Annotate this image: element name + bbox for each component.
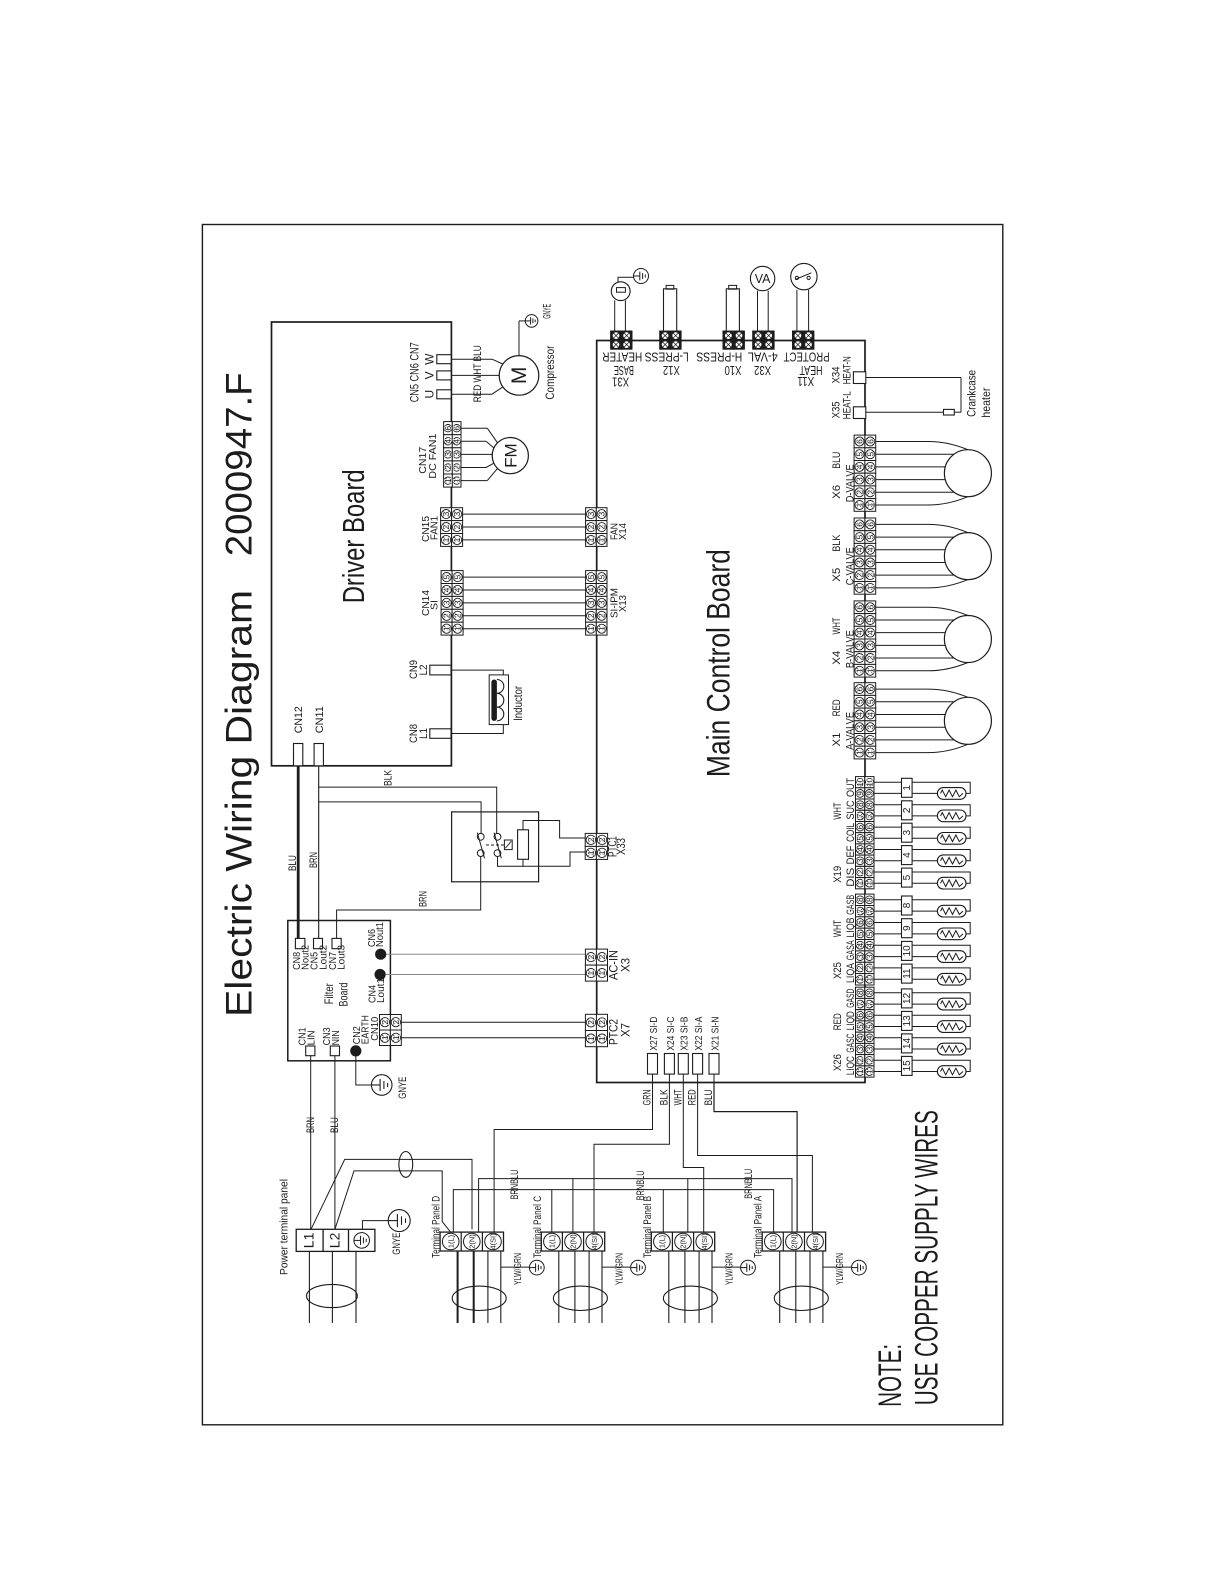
svg-text:8: 8 (865, 897, 874, 902)
svg-text:10: 10 (865, 777, 874, 786)
svg-text:Inductor: Inductor (511, 686, 525, 721)
svg-text:3: 3 (586, 600, 596, 605)
svg-text:2: 2 (586, 613, 596, 618)
svg-text:1: 1 (865, 977, 874, 982)
svg-text:5: 5 (855, 452, 865, 457)
svg-text:X11: X11 (797, 374, 814, 389)
svg-text:5: 5 (865, 931, 874, 936)
svg-text:2: 2 (597, 1020, 607, 1025)
svg-text:1: 1 (865, 750, 875, 755)
svg-text:4: 4 (453, 587, 463, 592)
svg-text:X32: X32 (754, 363, 771, 378)
svg-text:4: 4 (902, 852, 913, 858)
svg-text:1: 1 (586, 1036, 596, 1041)
svg-text:12: 12 (902, 992, 913, 1004)
svg-text:8: 8 (856, 897, 865, 902)
svg-text:D-VALVE: D-VALVE (845, 464, 857, 502)
svg-text:YLW/GRN: YLW/GRN (834, 1253, 846, 1285)
svg-text:1: 1 (586, 537, 596, 542)
svg-text:5: 5 (865, 699, 875, 704)
svg-text:HEAT-L: HEAT-L (841, 391, 853, 419)
svg-text:6: 6 (865, 920, 874, 925)
svg-text:1: 1 (442, 626, 452, 631)
svg-text:1: 1 (856, 1069, 865, 1074)
svg-text:Lout3: Lout3 (335, 945, 347, 970)
svg-text:8: 8 (865, 802, 874, 807)
svg-text:W: W (422, 353, 436, 365)
svg-text:2: 2 (597, 524, 607, 529)
svg-text:3: 3 (452, 452, 462, 457)
svg-text:L1: L1 (301, 1232, 317, 1248)
svg-text:GASC: GASC (845, 1034, 857, 1053)
svg-text:BLU: BLU (287, 855, 299, 871)
svg-text:4(SI): 4(SI) (700, 1233, 709, 1250)
svg-text:6: 6 (855, 522, 865, 527)
svg-text:PROTECT: PROTECT (784, 349, 830, 364)
svg-text:8: 8 (902, 902, 913, 908)
svg-text:6: 6 (855, 686, 865, 691)
svg-text:RED: RED (832, 1013, 844, 1030)
svg-text:2(N): 2(N) (468, 1234, 477, 1249)
svg-text:GASB: GASB (845, 895, 857, 915)
svg-text:5: 5 (855, 534, 865, 539)
svg-text:C-VALVE: C-VALVE (845, 547, 857, 585)
svg-text:4(SI): 4(SI) (590, 1233, 599, 1250)
svg-text:2: 2 (856, 869, 865, 874)
svg-text:3: 3 (865, 560, 875, 565)
svg-text:15: 15 (902, 1060, 913, 1072)
svg-text:2: 2 (441, 524, 451, 529)
svg-text:4: 4 (856, 847, 865, 852)
svg-text:5: 5 (856, 836, 865, 841)
svg-text:VA: VA (755, 272, 771, 286)
svg-text:6: 6 (856, 1013, 865, 1018)
svg-text:Lout1: Lout1 (375, 978, 387, 1003)
svg-text:SUC: SUC (845, 800, 857, 819)
svg-text:2: 2 (865, 869, 874, 874)
svg-text:H-PRESS: H-PRESS (696, 349, 742, 364)
svg-text:8: 8 (856, 802, 865, 807)
svg-text:X22 SI-A: X22 SI-A (693, 1017, 705, 1051)
svg-text:2: 2 (391, 1020, 401, 1025)
svg-text:X1: X1 (831, 733, 843, 747)
svg-text:1: 1 (586, 970, 596, 975)
svg-text:X25: X25 (832, 962, 844, 979)
svg-text:1: 1 (597, 850, 607, 855)
svg-text:Electric Wiring Diagram: Electric Wiring Diagram (219, 590, 260, 1017)
svg-text:X12: X12 (663, 363, 680, 378)
svg-text:7: 7 (856, 813, 865, 818)
svg-text:5: 5 (856, 1024, 865, 1029)
svg-text:1: 1 (865, 668, 875, 673)
svg-text:Terminal Panel A: Terminal Panel A (753, 1195, 765, 1257)
svg-text:5: 5 (865, 534, 875, 539)
svg-text:3: 3 (856, 954, 865, 959)
svg-text:YLW/GRN: YLW/GRN (723, 1253, 735, 1285)
svg-text:2(N): 2(N) (569, 1234, 578, 1249)
svg-text:BLK: BLK (831, 534, 843, 552)
svg-text:2: 2 (865, 965, 874, 970)
svg-text:CN12: CN12 (293, 706, 305, 733)
svg-text:1: 1 (452, 537, 462, 542)
svg-text:WHT: WHT (831, 617, 843, 634)
svg-text:Nout1: Nout1 (374, 922, 386, 947)
svg-text:1: 1 (597, 626, 607, 631)
svg-text:A-VALVE: A-VALVE (845, 712, 857, 750)
svg-text:1: 1 (865, 585, 875, 590)
svg-text:2: 2 (586, 954, 596, 959)
svg-text:6: 6 (865, 522, 875, 527)
svg-text:8: 8 (856, 990, 865, 995)
svg-text:2: 2 (856, 965, 865, 970)
svg-text:WHT: WHT (832, 802, 844, 819)
svg-text:WHT: WHT (672, 1089, 684, 1105)
svg-text:2: 2 (380, 1020, 390, 1025)
svg-text:4(SI): 4(SI) (811, 1233, 820, 1250)
svg-text:4: 4 (865, 712, 875, 717)
svg-text:GNYE: GNYE (391, 1233, 403, 1255)
svg-text:4: 4 (865, 847, 874, 852)
svg-text:2: 2 (865, 490, 875, 495)
svg-text:OUT: OUT (845, 778, 857, 797)
svg-text:YLW/GRN: YLW/GRN (512, 1253, 524, 1285)
svg-text:5: 5 (855, 617, 865, 622)
svg-text:X33: X33 (616, 838, 628, 855)
svg-text:2: 2 (597, 837, 607, 842)
svg-text:3: 3 (453, 600, 463, 605)
svg-text:9: 9 (856, 791, 865, 796)
svg-text:4: 4 (856, 942, 865, 947)
svg-text:Filter: Filter (322, 983, 336, 1004)
svg-text:X23 SI-B: X23 SI-B (679, 1017, 691, 1051)
svg-text:1: 1 (586, 626, 596, 631)
svg-text:6: 6 (865, 686, 875, 691)
svg-text:6: 6 (865, 605, 875, 610)
svg-text:GASD: GASD (845, 989, 857, 1008)
svg-text:GRN: GRN (642, 1089, 654, 1105)
svg-text:5: 5 (902, 874, 913, 880)
svg-text:X5: X5 (831, 568, 843, 582)
svg-text:BLK: BLK (383, 769, 395, 786)
svg-text:FAN1: FAN1 (429, 516, 441, 540)
svg-text:4: 4 (865, 630, 875, 635)
svg-text:DIS: DIS (845, 868, 857, 887)
svg-text:X14: X14 (617, 523, 629, 540)
svg-text:X7: X7 (621, 1023, 633, 1037)
svg-text:11: 11 (902, 968, 913, 979)
svg-text:LIN: LIN (305, 1030, 317, 1045)
svg-text:3: 3 (865, 477, 875, 482)
svg-text:X6: X6 (831, 485, 843, 499)
svg-text:4: 4 (865, 1035, 874, 1040)
svg-text:1: 1 (391, 1035, 401, 1040)
svg-text:5: 5 (865, 836, 874, 841)
svg-text:Power terminal panel: Power terminal panel (278, 1179, 290, 1275)
svg-text:X24 SI-C: X24 SI-C (665, 1016, 677, 1050)
svg-text:X3: X3 (621, 958, 633, 972)
svg-text:6: 6 (856, 920, 865, 925)
svg-text:X26: X26 (832, 1054, 844, 1071)
svg-text:LIQA: LIQA (845, 962, 857, 983)
svg-text:X13: X13 (617, 595, 629, 612)
svg-text:1: 1 (597, 537, 607, 542)
svg-text:5: 5 (453, 574, 463, 579)
svg-text:EARTH: EARTH (360, 1015, 372, 1044)
svg-text:2: 2 (452, 465, 462, 470)
svg-text:BLU: BLU (329, 1117, 341, 1133)
svg-text:LIQD: LIQD (845, 1011, 857, 1030)
svg-text:5: 5 (865, 1024, 874, 1029)
svg-text:9: 9 (865, 791, 874, 796)
svg-text:CN11: CN11 (314, 706, 326, 733)
svg-text:4(SI): 4(SI) (489, 1233, 498, 1250)
svg-text:2: 2 (452, 524, 462, 529)
svg-text:3: 3 (856, 858, 865, 863)
svg-text:2: 2 (865, 572, 875, 577)
svg-text:BLK: BLK (658, 1089, 670, 1106)
svg-text:5: 5 (865, 452, 875, 457)
svg-text:RED: RED (831, 699, 843, 716)
svg-text:LIQB: LIQB (845, 918, 857, 938)
svg-text:RED WHT BLU: RED WHT BLU (472, 345, 484, 402)
svg-text:1(L): 1(L) (769, 1234, 778, 1248)
svg-text:4: 4 (442, 587, 452, 592)
svg-text:Terminal Panel D: Terminal Panel D (431, 1196, 443, 1258)
svg-text:8: 8 (865, 990, 874, 995)
svg-text:1: 1 (380, 1035, 390, 1040)
svg-text:2: 2 (586, 1020, 596, 1025)
svg-text:GNYE: GNYE (397, 1077, 409, 1099)
svg-text:M: M (508, 367, 531, 385)
svg-text:X27 SI-D: X27 SI-D (648, 1016, 660, 1050)
svg-text:4: 4 (856, 1035, 865, 1040)
svg-text:6: 6 (856, 824, 865, 829)
svg-text:1: 1 (856, 880, 865, 885)
svg-text:4: 4 (865, 547, 875, 552)
svg-text:7: 7 (865, 1001, 874, 1006)
svg-text:Driver Board: Driver Board (336, 469, 371, 603)
svg-text:2000947.F: 2000947.F (219, 372, 260, 556)
svg-text:Compressor: Compressor (543, 346, 557, 400)
svg-text:2: 2 (453, 613, 463, 618)
svg-text:7: 7 (856, 908, 865, 913)
svg-text:Crankcase: Crankcase (964, 370, 978, 417)
svg-text:1: 1 (453, 626, 463, 631)
svg-text:YLW/GRN: YLW/GRN (613, 1253, 625, 1285)
svg-text:BRN: BRN (305, 1117, 317, 1133)
svg-text:DC FAN1: DC FAN1 (427, 433, 439, 478)
svg-text:1: 1 (441, 537, 451, 542)
svg-text:1(L): 1(L) (446, 1234, 455, 1248)
svg-text:6: 6 (865, 824, 874, 829)
svg-text:1: 1 (856, 977, 865, 982)
svg-text:6: 6 (855, 605, 865, 610)
svg-text:2: 2 (865, 1058, 874, 1063)
svg-text:4: 4 (452, 439, 462, 444)
svg-text:NIN: NIN (330, 1030, 342, 1045)
svg-text:1: 1 (452, 478, 462, 483)
svg-text:5: 5 (442, 574, 452, 579)
svg-text:3: 3 (865, 643, 875, 648)
svg-text:GNYE: GNYE (542, 304, 554, 319)
svg-text:2: 2 (597, 613, 607, 618)
svg-text:5: 5 (855, 699, 865, 704)
svg-text:GASA: GASA (845, 940, 857, 960)
svg-text:L2: L2 (418, 665, 430, 676)
svg-text:3: 3 (902, 829, 913, 835)
svg-text:WHT: WHT (832, 920, 844, 937)
svg-text:AC-IN: AC-IN (609, 950, 621, 980)
svg-text:BLU: BLU (703, 1089, 715, 1105)
svg-text:U: U (422, 390, 436, 399)
svg-text:2: 2 (856, 1058, 865, 1063)
svg-text:5: 5 (865, 617, 875, 622)
svg-text:X21 SI-N: X21 SI-N (709, 1017, 721, 1051)
svg-text:LIQC: LIQC (845, 1056, 857, 1075)
svg-text:RED: RED (687, 1089, 699, 1105)
svg-text:6: 6 (855, 439, 865, 444)
svg-text:BRNBLU: BRNBLU (509, 1169, 521, 1199)
svg-text:2: 2 (902, 807, 913, 813)
svg-text:3: 3 (586, 511, 596, 516)
svg-text:1: 1 (865, 880, 874, 885)
svg-text:2: 2 (586, 837, 596, 842)
svg-text:BRN: BRN (418, 891, 430, 907)
svg-text:Board: Board (337, 983, 351, 1007)
svg-text:14: 14 (902, 1037, 913, 1049)
svg-text:L1: L1 (418, 728, 430, 739)
svg-text:6: 6 (865, 439, 875, 444)
svg-text:4-VAL: 4-VAL (748, 349, 778, 364)
svg-text:2: 2 (586, 524, 596, 529)
svg-text:V: V (422, 371, 436, 379)
svg-text:3: 3 (865, 954, 874, 959)
svg-text:DEF: DEF (845, 845, 857, 864)
svg-text:FM: FM (502, 443, 521, 468)
svg-text:4: 4 (597, 587, 607, 592)
svg-text:3: 3 (452, 511, 462, 516)
svg-text:3: 3 (856, 1046, 865, 1051)
svg-text:HEATER: HEATER (602, 350, 642, 365)
svg-text:3: 3 (597, 600, 607, 605)
svg-text:NOTE:: NOTE: (872, 1344, 908, 1407)
svg-text:heater: heater (979, 388, 993, 418)
svg-text:PTC2: PTC2 (609, 1019, 621, 1045)
svg-text:3: 3 (442, 600, 452, 605)
svg-text:1: 1 (902, 785, 913, 791)
svg-text:3: 3 (597, 511, 607, 516)
svg-text:6: 6 (452, 426, 462, 431)
svg-text:X19: X19 (832, 866, 844, 883)
svg-text:6: 6 (865, 1013, 874, 1018)
svg-text:4: 4 (865, 942, 874, 947)
svg-text:9: 9 (902, 925, 913, 931)
svg-text:BRNBLU: BRNBLU (743, 1169, 755, 1199)
svg-text:1: 1 (597, 970, 607, 975)
svg-text:COIL: COIL (845, 823, 857, 842)
svg-text:BRNBLU: BRNBLU (635, 1170, 647, 1200)
svg-text:3: 3 (865, 725, 875, 730)
svg-text:5: 5 (586, 574, 596, 579)
svg-text:4: 4 (865, 464, 875, 469)
svg-text:13: 13 (902, 1015, 913, 1027)
svg-text:2: 2 (865, 737, 875, 742)
svg-text:1: 1 (597, 1036, 607, 1041)
svg-text:SI: SI (429, 600, 441, 610)
svg-text:X10: X10 (725, 363, 742, 378)
svg-text:BRN: BRN (308, 852, 320, 868)
svg-text:Terminal Panel B: Terminal Panel B (642, 1196, 654, 1258)
svg-text:10: 10 (902, 945, 913, 957)
svg-text:1: 1 (865, 502, 875, 507)
svg-text:7: 7 (865, 908, 874, 913)
svg-text:10: 10 (856, 777, 865, 786)
svg-text:BLU: BLU (831, 452, 843, 469)
svg-text:Terminal Panel C: Terminal Panel C (532, 1196, 544, 1258)
svg-text:3: 3 (865, 1046, 874, 1051)
svg-text:1(L): 1(L) (548, 1234, 557, 1248)
svg-text:3: 3 (441, 511, 451, 516)
svg-text:2(N): 2(N) (679, 1234, 688, 1249)
svg-text:B-VALVE: B-VALVE (845, 630, 857, 668)
svg-text:2: 2 (597, 954, 607, 959)
svg-text:4: 4 (586, 587, 596, 592)
svg-text:Main Control Board: Main Control Board (701, 549, 737, 777)
svg-text:2: 2 (442, 613, 452, 618)
svg-text:HEAT-N: HEAT-N (841, 356, 853, 384)
svg-text:5: 5 (597, 574, 607, 579)
svg-text:7: 7 (856, 1001, 865, 1006)
svg-text:X4: X4 (831, 651, 843, 665)
svg-text:CN5 CN6 CN7: CN5 CN6 CN7 (408, 342, 422, 402)
svg-text:1: 1 (586, 850, 596, 855)
svg-text:3: 3 (865, 858, 874, 863)
svg-text:L2: L2 (327, 1232, 343, 1248)
svg-text:X31: X31 (612, 375, 629, 390)
svg-text:2(N): 2(N) (790, 1234, 799, 1249)
svg-text:5: 5 (856, 931, 865, 936)
svg-text:2: 2 (865, 655, 875, 660)
svg-text:1(L): 1(L) (658, 1234, 667, 1248)
svg-text:1: 1 (865, 1069, 874, 1074)
svg-text:USE COPPER SUPPLY WIRES: USE COPPER SUPPLY WIRES (909, 1110, 945, 1405)
svg-text:7: 7 (865, 813, 874, 818)
svg-text:L-PRESS: L-PRESS (644, 349, 688, 364)
